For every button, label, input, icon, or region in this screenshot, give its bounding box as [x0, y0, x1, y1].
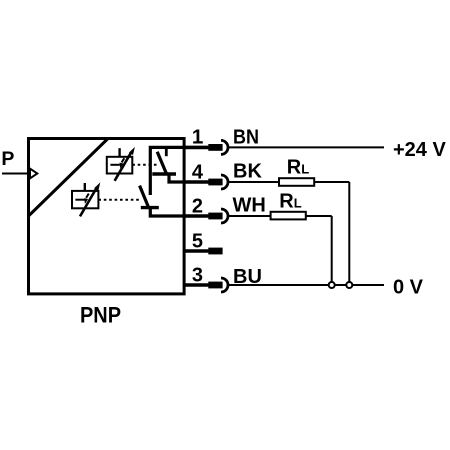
wire S1 output to pin4	[169, 173, 184, 183]
pin 1 socket arc	[221, 140, 228, 154]
B2 top stub	[84, 183, 86, 191]
B2 adjustment arrow	[80, 182, 100, 216]
pin 2 socket arc	[221, 209, 228, 223]
switch S2 lever	[140, 186, 149, 207]
pin 3 socket arc	[221, 278, 228, 292]
pressure sensor B1 body	[107, 157, 133, 174]
B2 setpoint line	[75, 199, 85, 201]
load resistor RL2	[271, 212, 306, 220]
B1 setpoint arrow	[120, 158, 125, 168]
B1 adjustment arrow	[115, 147, 135, 181]
pin 4 socket arc	[221, 175, 228, 189]
wire RL2 to junction	[306, 215, 332, 217]
wire BK to RL1	[228, 181, 279, 183]
pin 5 wire	[184, 249, 209, 253]
load resistor RL1	[279, 178, 314, 186]
svg-text:RL: RL	[279, 191, 301, 213]
junction node RL1/0V	[346, 282, 352, 288]
switch S1 contact bar	[152, 172, 176, 175]
B1 setpoint line	[110, 164, 119, 166]
svg-text:RL: RL	[287, 156, 309, 178]
wire RL1 to junction	[314, 181, 349, 183]
pin 4 wire	[184, 180, 209, 184]
pin 3 wire	[184, 283, 209, 287]
svg-text:P: P	[1, 148, 14, 170]
B1 top stub	[118, 148, 120, 157]
actuation link B2-S2 (dashed)	[98, 199, 141, 201]
svg-text:0 V: 0 V	[393, 276, 424, 298]
svg-text:3: 3	[192, 265, 203, 287]
wire S2 output to pin2	[150, 206, 184, 216]
svg-text:PNP: PNP	[80, 302, 121, 327]
wire pin1 to supply rail	[150, 147, 184, 195]
pin 4 contact bar	[208, 179, 222, 186]
diagonal separator line	[29, 139, 109, 217]
pin 3 contact bar	[208, 282, 222, 289]
pressure sensor B2 body	[72, 191, 98, 208]
switch S2 contact bar	[141, 206, 159, 209]
+24V supply wire	[228, 146, 384, 148]
pin 1 contact bar	[208, 144, 222, 151]
RL1 drop wire	[348, 182, 350, 283]
svg-text:1: 1	[192, 127, 203, 149]
junction node RL2/0V	[329, 282, 335, 288]
switch S1 lever	[157, 152, 167, 175]
svg-text:5: 5	[192, 231, 203, 253]
svg-text:4: 4	[192, 162, 204, 184]
switch S1 fixed contact stub	[165, 147, 168, 156]
pin 2 wire	[184, 214, 209, 218]
svg-text:BN: BN	[233, 126, 259, 148]
pin 2 contact bar	[208, 213, 222, 220]
sensor body box U1	[29, 139, 185, 294]
B2 setpoint arrow	[84, 194, 89, 204]
svg-text:BK: BK	[233, 161, 262, 183]
svg-text:+24 V: +24 V	[393, 139, 446, 161]
pin 1 number foot serif	[195, 141, 203, 143]
svg-text:WH: WH	[233, 195, 266, 217]
actuation link B1-S1 (dashed)	[132, 164, 157, 166]
RL2 drop wire	[331, 216, 333, 283]
port P wire	[2, 173, 30, 175]
port P arrowhead	[30, 169, 37, 179]
wire WH to RL2	[228, 215, 270, 217]
svg-text:2: 2	[192, 195, 203, 217]
pin 1 wire	[184, 146, 209, 150]
pin 5 contact bar	[208, 248, 222, 255]
0V wire	[228, 284, 384, 286]
